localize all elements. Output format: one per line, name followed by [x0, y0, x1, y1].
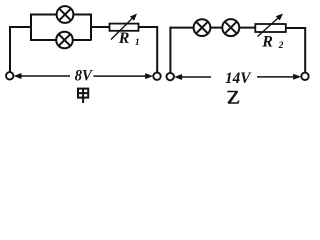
svg-text:8V: 8V: [75, 68, 93, 85]
svg-text:R: R: [118, 30, 130, 47]
svg-text:14V: 14V: [225, 70, 252, 87]
svg-text:2: 2: [278, 41, 284, 51]
svg-text:R: R: [261, 34, 273, 51]
svg-text:1: 1: [135, 38, 140, 48]
